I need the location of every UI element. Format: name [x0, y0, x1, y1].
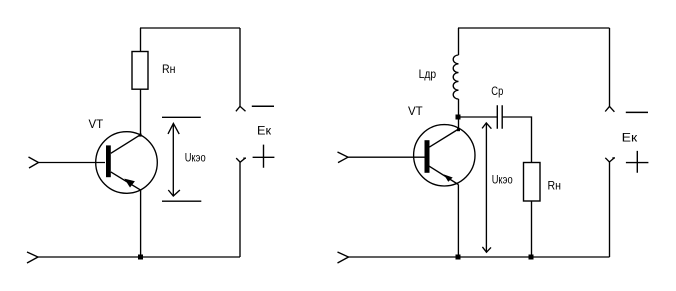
svg-text:Uкэо: Uкэо — [185, 152, 206, 164]
svg-text:Lдр: Lдр — [419, 69, 437, 81]
svg-text:Eк: Eк — [622, 132, 639, 144]
svg-text:Cр: Cр — [491, 86, 503, 98]
svg-text:Rн: Rн — [162, 64, 176, 76]
svg-text:Rн: Rн — [548, 180, 562, 192]
svg-text:Uкэо: Uкэо — [492, 174, 513, 186]
svg-text:Eк: Eк — [257, 126, 272, 138]
svg-text:VT: VT — [408, 106, 423, 118]
svg-text:VT: VT — [89, 119, 104, 131]
